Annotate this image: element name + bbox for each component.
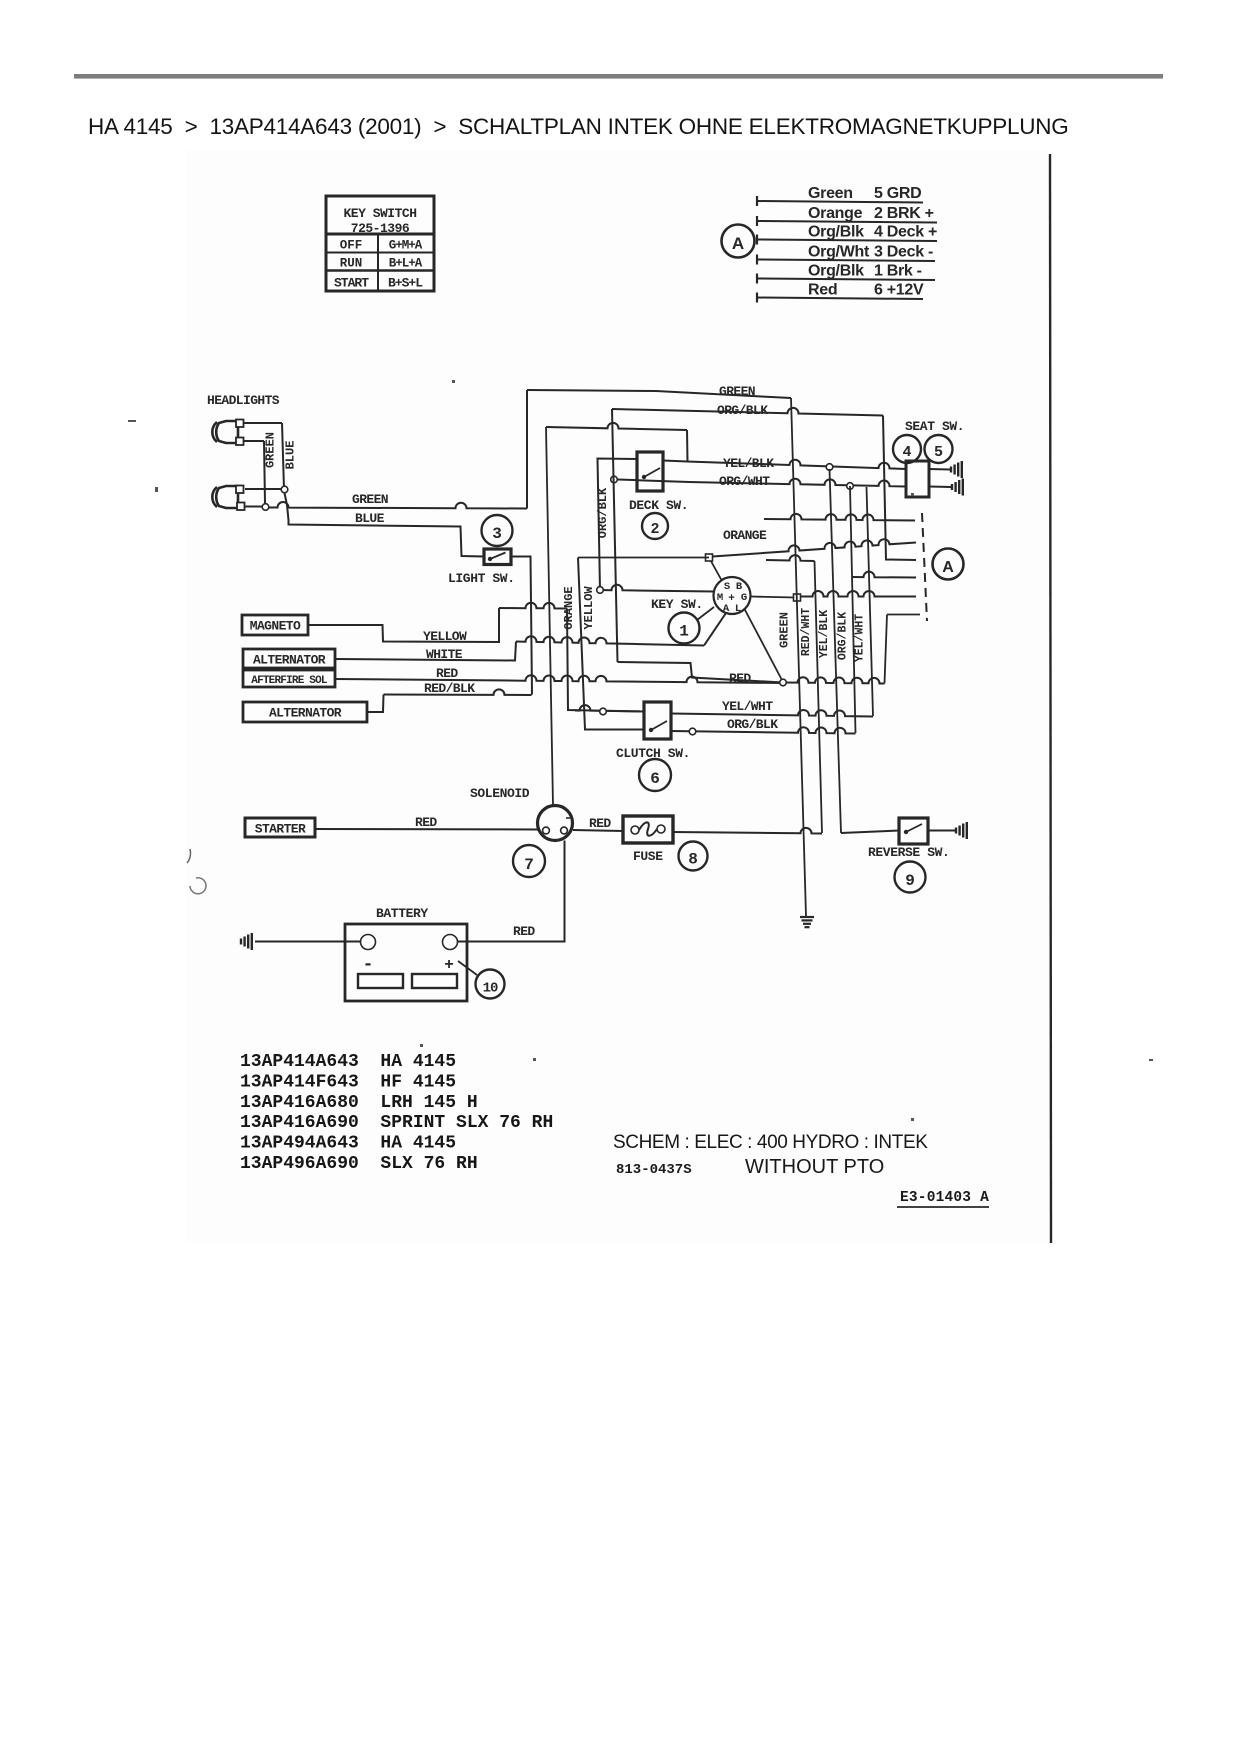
- svg-text:RED/BLK: RED/BLK: [424, 681, 475, 696]
- connector A pin line 4 Deck + (Org/Blk): [757, 224, 937, 245]
- wire ORG/BLK from deck area to connector stub: [612, 408, 916, 560]
- reverse switch SW9 box: [899, 818, 928, 844]
- wire battery negative to ground: [255, 941, 360, 943]
- reverse circle 9: [895, 862, 926, 893]
- svg-text:GREEN: GREEN: [719, 384, 755, 399]
- svg-text:ORG/BLK: ORG/BLK: [717, 403, 768, 418]
- svg-text:RUN: RUN: [340, 257, 363, 271]
- deck switch feed riser yellow/blk: [598, 459, 638, 591]
- svg-text:4: 4: [902, 444, 911, 461]
- connector A stub pin5 from green bus: [800, 591, 916, 596]
- solenoid symbol SW7: [538, 806, 573, 841]
- drawing number E3-01403 A: [897, 1190, 989, 1207]
- svg-text:LIGHT SW.: LIGHT SW.: [448, 571, 515, 586]
- wire blue: lamp1 top to junction: [244, 423, 284, 489]
- wire RED solenoid to fuse: [573, 830, 623, 831]
- light switch SW3 circle 3: [482, 515, 513, 546]
- connector A stub pin6 red riser: [885, 615, 921, 684]
- wire blue drop to BLUE run: [285, 493, 485, 557]
- connector A stub pin1: [764, 514, 915, 521]
- svg-text:RED: RED: [436, 666, 458, 681]
- svg-text:MAGNETO: MAGNETO: [250, 619, 301, 634]
- svg-text:7: 7: [524, 856, 534, 874]
- MAGNETO box: [242, 615, 308, 635]
- wire orange riser to clutch: [578, 558, 644, 730]
- org/blk bus vertical: [850, 486, 856, 733]
- svg-text:GREEN: GREEN: [352, 492, 388, 507]
- svg-text:SOLENOID: SOLENOID: [470, 786, 530, 801]
- svg-text:L: L: [735, 603, 741, 615]
- green bus vertical: [791, 398, 806, 916]
- svg-text:13AP414F643 HF 4145: 13AP414F643 HF 4145: [240, 1072, 456, 1092]
- svg-text:HA 4145 > 13AP414A643 (2001): HA 4145 > 13AP414A643 (2001) > SCHALTPLA…: [88, 114, 1069, 139]
- top horizontal rule: [74, 74, 1163, 79]
- svg-text:Orange: Orange: [808, 205, 863, 222]
- wire key G to green bus node: [751, 597, 796, 598]
- node key G at green bus: [794, 594, 801, 601]
- svg-text:Green: Green: [808, 185, 853, 202]
- svg-text:4 Deck +: 4 Deck +: [874, 224, 937, 241]
- svg-text:B+L+A: B+L+A: [389, 257, 423, 271]
- STARTER box: [245, 818, 315, 837]
- wire from light switch to red/blk riser: [511, 557, 532, 695]
- key switch circle SW1: [714, 577, 751, 615]
- svg-text:10: 10: [483, 981, 498, 997]
- svg-text:725-1396: 725-1396: [351, 221, 410, 236]
- svg-text:ALTERNATOR: ALTERNATOR: [269, 706, 342, 721]
- svg-text:2: 2: [650, 521, 659, 538]
- svg-text:Org/Blk: Org/Blk: [808, 224, 864, 241]
- red/wht bus vertical: [815, 561, 823, 833]
- wire YEL/BLK deck switch to seat switch: [663, 460, 906, 469]
- svg-text:5: 5: [934, 444, 943, 461]
- node yellow junction clutch feed: [600, 708, 607, 715]
- svg-text:5 GRD: 5 GRD: [874, 185, 921, 202]
- svg-text:BLUE: BLUE: [355, 511, 385, 526]
- svg-text:2 BRK +: 2 BRK +: [874, 205, 934, 222]
- reverse switch ground: [955, 828, 957, 834]
- solenoid circle 7: [513, 845, 545, 877]
- svg-text:+: +: [444, 956, 454, 974]
- wire RED from afterfire solenoid to junction: [335, 675, 783, 683]
- node org/wht at deck riser: [611, 476, 618, 483]
- svg-text:YEL/BLK: YEL/BLK: [723, 456, 774, 471]
- seat switch ground lower: [929, 479, 963, 496]
- wire RED/BLK from alternator 2: [367, 695, 384, 713]
- svg-text:6 +12V: 6 +12V: [874, 282, 924, 299]
- svg-text:G+M+A: G+M+A: [389, 239, 423, 253]
- svg-text:Org/Blk: Org/Blk: [808, 263, 864, 280]
- svg-text:DECK SW.: DECK SW.: [629, 498, 688, 513]
- node org/blk riser top: [847, 483, 854, 490]
- deck switch circle 2: [642, 513, 668, 539]
- wire GREEN run from headlights to riser: [269, 502, 527, 508]
- svg-text:YELLOW: YELLOW: [423, 629, 467, 644]
- svg-text:1 Brk -: 1 Brk -: [874, 263, 922, 280]
- headlight lamp 1: [212, 420, 243, 446]
- svg-text:RED: RED: [513, 924, 535, 939]
- svg-text:STARTER: STARTER: [255, 822, 306, 837]
- clutch switch circle 6: [639, 759, 671, 791]
- wire ORG/WHT deck to seat switch: [618, 479, 906, 487]
- svg-text:RED: RED: [415, 815, 437, 830]
- ALTERNATOR box: [243, 649, 335, 668]
- wire RED main run to riser: [783, 677, 885, 683]
- svg-text:BLUE: BLUE: [284, 441, 298, 470]
- connector A pin line 2 BRK + (Orange): [757, 205, 937, 226]
- hump yellow-clutch over orange riser: [575, 705, 640, 711]
- connector A circle on diagram: [933, 549, 964, 580]
- wire YEL/WHT clutch to riser: [671, 710, 873, 717]
- wire YELLOW from magneto: [308, 608, 499, 642]
- svg-text:RED: RED: [589, 816, 611, 831]
- node red junction: [780, 679, 787, 686]
- svg-text:13AP416A690 SPRINT SLX 76 RH: 13AP416A690 SPRINT SLX 76 RH: [240, 1113, 553, 1133]
- svg-text:3 Deck -: 3 Deck -: [874, 244, 933, 261]
- seat switch box: [906, 461, 929, 497]
- svg-text:OFF: OFF: [340, 239, 363, 253]
- svg-text:BATTERY: BATTERY: [376, 906, 428, 921]
- seat switch circle 5: [925, 435, 953, 463]
- wire green: lamp2 bottom to junction: [245, 506, 262, 508]
- svg-text:ALTERNATOR: ALTERNATOR: [253, 653, 326, 668]
- wire yellow drop and run to clutch: [567, 609, 644, 712]
- deck switch SW2 box: [637, 452, 663, 491]
- model list text block: [240, 1052, 553, 1174]
- wire RED battery positive to solenoid: [458, 841, 565, 942]
- fuse circle 8: [679, 842, 708, 871]
- svg-text:KEY SW.: KEY SW.: [651, 597, 703, 612]
- wire org/blk riser deck left: [612, 409, 618, 662]
- wire key S diagonal to orange node: [709, 558, 722, 582]
- wire WHITE from alternator: [335, 642, 516, 661]
- svg-text:SCHEM : ELEC : 400 HYDRO : INT: SCHEM : ELEC : 400 HYDRO : INTEK: [613, 1132, 928, 1153]
- connector A pin line 5 GRD (Green): [757, 185, 923, 206]
- wire org/blk step to red junction: [618, 662, 784, 683]
- connector A dashed interface line: [922, 513, 927, 621]
- ALTERNATOR box 2: [243, 702, 367, 722]
- svg-text:YEL/BLK: YEL/BLK: [818, 610, 831, 658]
- wire blue: lamp2 top to junction: [245, 488, 281, 490]
- svg-text:ORANGE: ORANGE: [562, 586, 576, 629]
- right scan border line: [1050, 154, 1051, 1243]
- light switch box: [484, 549, 511, 565]
- svg-text:ORG/WHT: ORG/WHT: [719, 474, 770, 489]
- svg-text:FUSE: FUSE: [633, 849, 663, 864]
- svg-text:B+S+L: B+S+L: [388, 276, 423, 291]
- svg-text:WHITE: WHITE: [426, 647, 463, 662]
- wire GREEN top run to green bus: [527, 390, 791, 398]
- wire yellow to key M: [600, 585, 714, 592]
- node green junction at lamp2 bottom: [262, 504, 269, 511]
- svg-text:8: 8: [688, 851, 698, 869]
- svg-text:ORG/BLK: ORG/BLK: [727, 717, 778, 732]
- wire green: lamp1 bottom to vertical: [244, 441, 265, 503]
- svg-text:GREEN: GREEN: [778, 612, 792, 648]
- svg-text:E3-01403 A: E3-01403 A: [900, 1190, 989, 1206]
- connector A pin line 1 Brk - (Org/Blk): [757, 263, 935, 284]
- svg-text:WITHOUT PTO: WITHOUT PTO: [745, 1156, 884, 1178]
- svg-text:A: A: [942, 559, 954, 576]
- svg-text:A: A: [723, 603, 730, 615]
- svg-text:RED/WHT: RED/WHT: [800, 608, 813, 656]
- svg-text:9: 9: [905, 872, 915, 890]
- node yellow riser: [597, 587, 604, 594]
- battery box: [345, 924, 467, 1001]
- wire fuse to red/wht bus: [673, 828, 822, 834]
- node orange-key junction: [706, 554, 713, 561]
- fuse box SW8: [623, 816, 673, 843]
- svg-text:13AP414A643 HA 4145: 13AP414A643 HA 4145: [240, 1052, 456, 1072]
- node org/blk clutch: [689, 728, 696, 735]
- svg-text:AFTERFIRE SOL: AFTERFIRE SOL: [251, 675, 328, 687]
- battery ground symbol: [240, 939, 242, 945]
- svg-text:-: -: [363, 955, 374, 975]
- connector A pin line 3 Deck - (Org/Wht): [757, 244, 935, 265]
- wire RED starter to solenoid: [315, 828, 538, 831]
- svg-text:REVERSE SW.: REVERSE SW.: [868, 845, 949, 860]
- node blue junction at lamp2 top: [281, 486, 288, 493]
- svg-text:ORG/BLK: ORG/BLK: [837, 612, 850, 660]
- scan speckles: [128, 380, 1153, 1121]
- battery circle 10: [476, 970, 505, 999]
- wire reverse switch to ground: [928, 830, 955, 832]
- svg-text:13AP416A680 LRH 145 H: 13AP416A680 LRH 145 H: [240, 1093, 478, 1113]
- hump yellow over light-sw riser: [499, 603, 567, 609]
- svg-text:YELLOW: YELLOW: [582, 586, 596, 630]
- svg-text:GREEN: GREEN: [264, 432, 278, 468]
- svg-text:SEAT SW.: SEAT SW.: [905, 419, 964, 434]
- svg-text:YEL/WHT: YEL/WHT: [854, 614, 867, 662]
- svg-text:Org/Wht: Org/Wht: [808, 244, 870, 261]
- clutch switch SW6 box: [644, 702, 671, 739]
- wire org/wht top run: [546, 423, 687, 430]
- yel/blk bus vertical: [830, 469, 842, 833]
- headlight lamp 2: [212, 486, 244, 511]
- key switch circle 1: [669, 613, 700, 644]
- svg-text:1: 1: [679, 623, 689, 641]
- svg-text:ORG/BLK: ORG/BLK: [596, 487, 610, 538]
- svg-text:6: 6: [650, 770, 660, 788]
- connector A stub pin4 from org/blk bus: [852, 572, 917, 578]
- node yel/blk - red/wht riser: [826, 464, 833, 471]
- green bus ground: [800, 916, 814, 918]
- svg-text:ORANGE: ORANGE: [723, 528, 767, 543]
- svg-text:S: S: [724, 581, 730, 593]
- yel/wht bus vertical: [867, 487, 874, 716]
- wire red/wht top stub: [766, 555, 815, 561]
- svg-text:13AP494A643 HA 4145: 13AP494A643 HA 4145: [240, 1134, 456, 1154]
- key switch legend table 725-1396: [326, 196, 434, 291]
- svg-text:Red: Red: [808, 282, 837, 299]
- wire org/wht riser from A-line to solenoid: [546, 427, 553, 805]
- wire ORANGE from riser to connector A: [578, 539, 916, 557]
- svg-text:YEL/WHT: YEL/WHT: [722, 699, 773, 714]
- svg-text:813-0437S: 813-0437S: [616, 1162, 692, 1178]
- svg-text:RED: RED: [729, 671, 751, 686]
- leader battery to circle 10: [458, 961, 477, 975]
- svg-text:3: 3: [492, 525, 502, 543]
- wire WHITE run to key switch A: [516, 636, 704, 645]
- svg-text:KEY SWITCH: KEY SWITCH: [343, 206, 416, 221]
- wire yel/blk bus to reverse switch: [841, 831, 899, 834]
- AFTERFIRE SOL box: [243, 670, 335, 687]
- wire ORG/BLK clutch to riser: [671, 727, 856, 733]
- svg-text:START: START: [334, 276, 369, 291]
- svg-text:A: A: [732, 234, 744, 253]
- scan background tint: [187, 150, 1049, 1243]
- connector A pin line 6 +12V (Red): [757, 282, 924, 303]
- connector A callout circle: [722, 225, 755, 258]
- svg-text:HEADLIGHTS: HEADLIGHTS: [207, 393, 280, 408]
- svg-text:13AP496A690 SLX 76 RH: 13AP496A690 SLX 76 RH: [240, 1154, 478, 1174]
- seat switch circle 4: [893, 435, 921, 463]
- seat switch ground upper: [929, 461, 962, 478]
- svg-text:G: G: [741, 592, 747, 604]
- wire green riser up to top run: [526, 390, 528, 509]
- wire key L diagonal to red junction: [745, 609, 784, 682]
- leader circle1 to key switch: [697, 607, 714, 620]
